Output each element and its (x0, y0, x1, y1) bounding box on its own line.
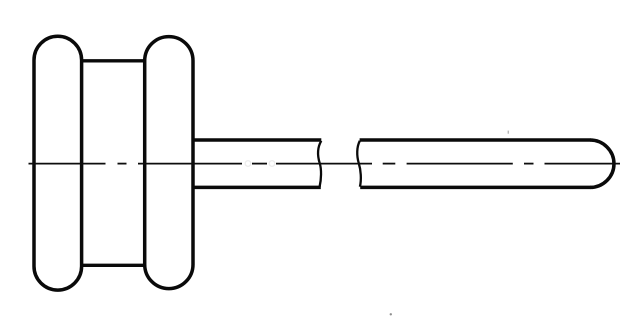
hub top line (82, 59, 145, 62)
centerline dash 8 (524, 163, 534, 165)
faint watermark ring 2 (269, 161, 275, 167)
left flange capsule (34, 36, 82, 290)
faint speck bottom (390, 313, 392, 315)
right flange capsule (145, 37, 193, 289)
shaft right segment bottom line (360, 186, 590, 190)
centerline dash 2 (118, 163, 127, 165)
faint watermark ring 1 (245, 161, 251, 167)
shaft break line right (S-curve) (357, 141, 361, 187)
faint tick above shaft (507, 131, 509, 134)
centerline dash 9 (545, 163, 621, 165)
shaft right segment top line (360, 138, 591, 142)
centerline dash 7 (407, 163, 513, 165)
centerline dash 1 (29, 163, 106, 165)
shaft left segment bottom line (193, 186, 321, 190)
shaft break line left (S-curve) (318, 141, 321, 187)
centerline dash 4 (252, 163, 267, 165)
centerline dash 6 (383, 163, 396, 165)
shaft left segment top line (193, 138, 321, 142)
shaft rounded end cap (590, 140, 614, 187)
hub bottom line (82, 264, 145, 267)
centerline dash 5 (276, 163, 372, 165)
centerline dash 3 (138, 163, 242, 165)
